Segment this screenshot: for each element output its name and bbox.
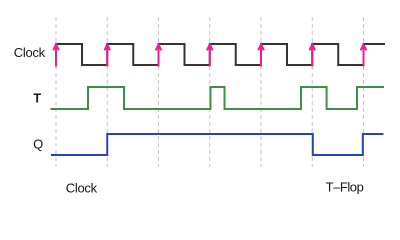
vertical dashed gridline 2 [106,17,108,167]
svg-text:T–Flop: T–Flop [326,180,364,195]
rising-edge arrow 1 [53,44,59,66]
svg-text:Clock: Clock [14,45,46,60]
svg-text:T: T [33,92,41,106]
rising-edge arrow 4 [207,44,213,66]
vertical dashed gridline 6 [311,17,313,167]
vertical dashed gridline 7 [363,17,365,167]
T waveform [51,87,385,109]
vertical dashed gridline 5 [260,17,262,167]
rising-edge arrow 5 [258,44,264,66]
Q waveform [51,134,384,155]
vertical dashed gridline 4 [209,17,211,167]
Clock waveform [56,44,385,65]
vertical dashed gridline 3 [158,17,160,167]
vertical dashed gridline 1 [55,17,57,167]
rising-edge arrow 7 [361,44,367,66]
rising-edge arrow 2 [104,44,110,66]
rising-edge arrow 3 [156,44,162,66]
svg-text:Q: Q [33,137,43,152]
svg-text:Clock: Clock [66,180,98,195]
rising-edge arrow 6 [309,44,315,66]
